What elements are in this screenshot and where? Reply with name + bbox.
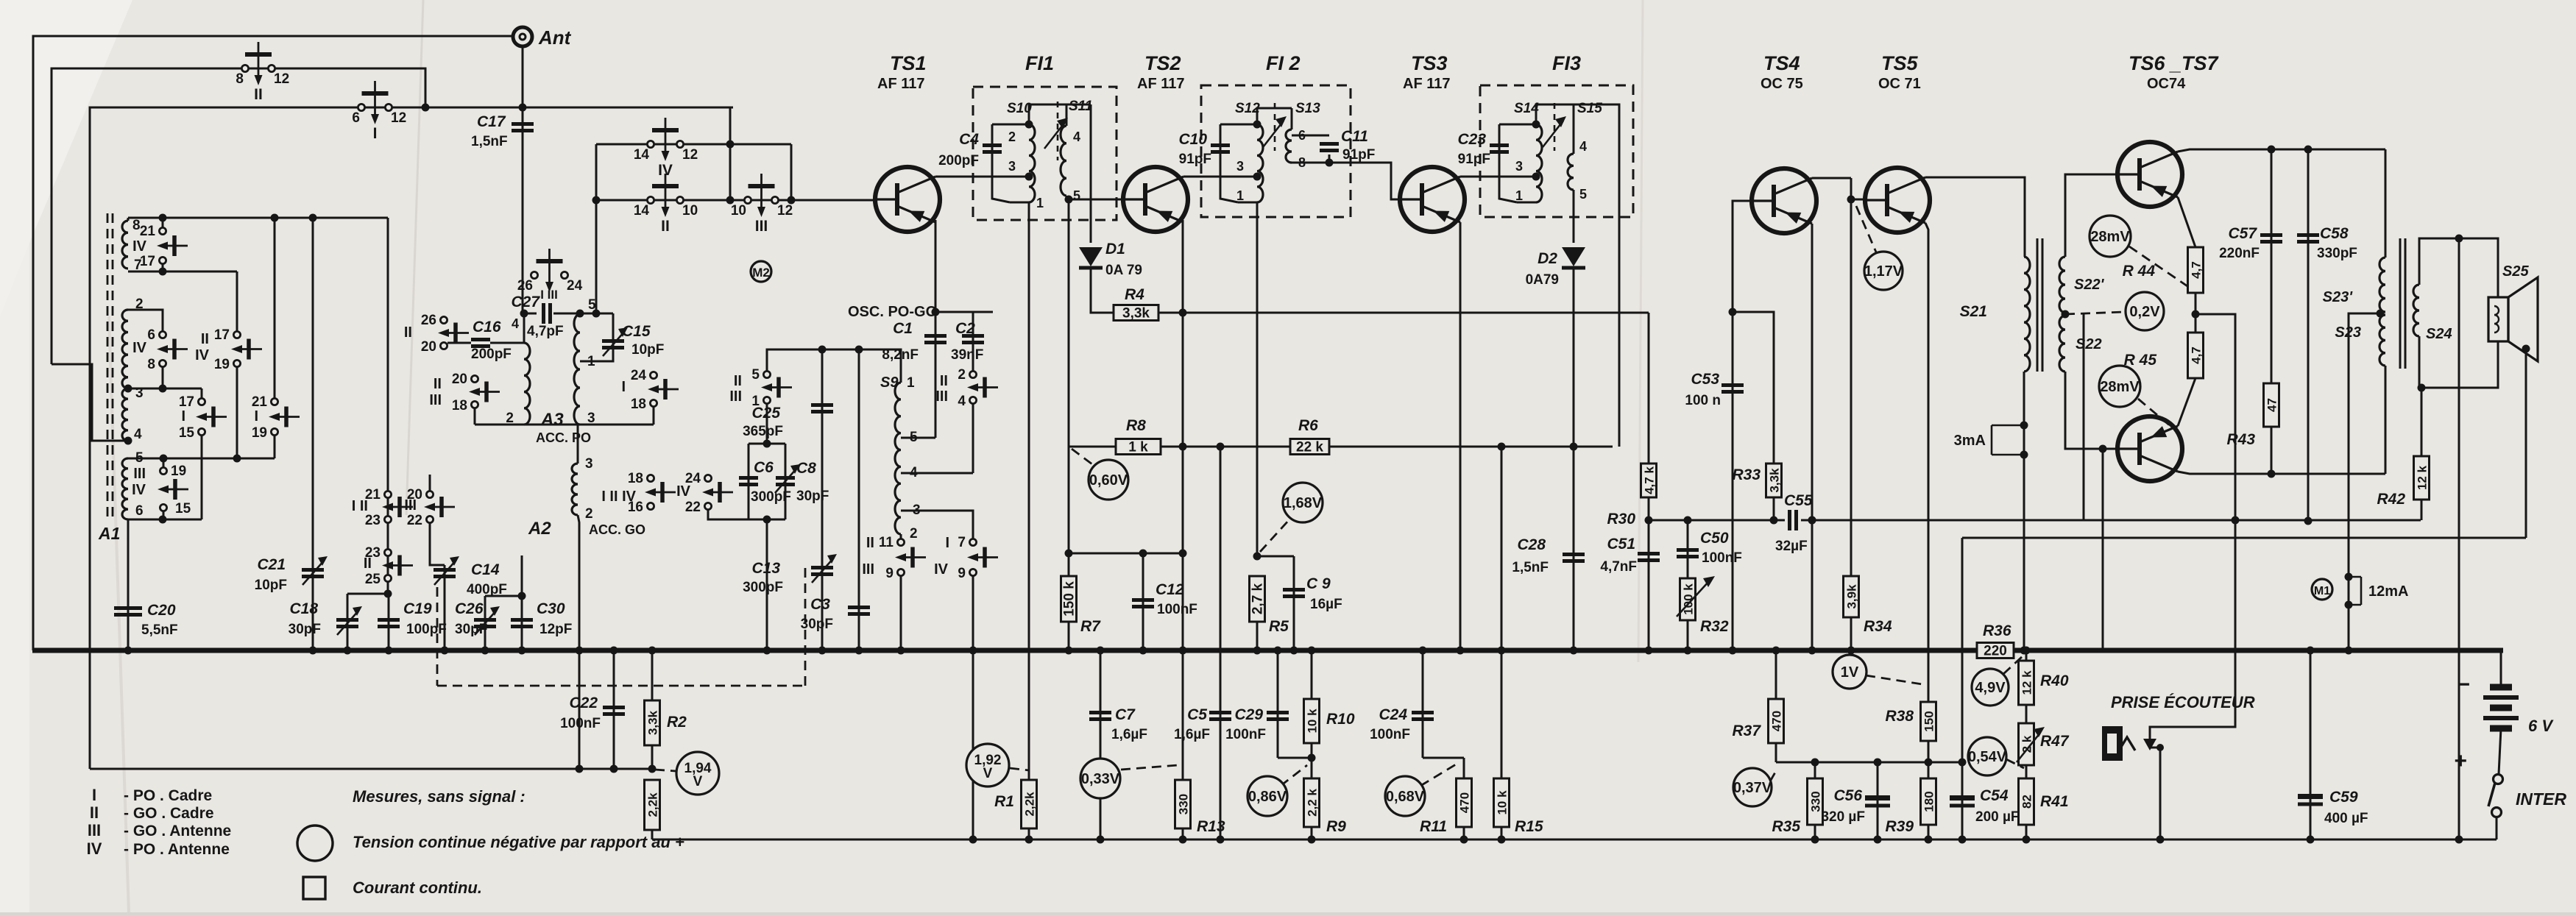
svg-text:1 k: 1 k: [1128, 440, 1148, 455]
wire rail 475: [767, 349, 901, 383]
wire S10 bottom: [1010, 202, 1029, 204]
junction II-III row x992: [726, 196, 735, 205]
capacitor C16: [471, 338, 490, 341]
svg-text:OC 75: OC 75: [1761, 76, 1803, 92]
wire mid rail 1036: [1776, 761, 1962, 764]
measure 1,17V: [1864, 252, 1903, 290]
svg-text:AF 117: AF 117: [877, 76, 924, 92]
junction C30 bus: [518, 647, 526, 655]
junction link752 left: [1065, 550, 1073, 558]
svg-text:4: 4: [134, 427, 142, 442]
svg-text:1,17V: 1,17V: [1864, 263, 1903, 280]
svg-text:TS1: TS1: [890, 52, 927, 74]
dashed measure 28mV top: [2129, 246, 2192, 289]
measure 0,37V: [1733, 768, 1772, 806]
switch II-IV contacts 17-19: [233, 331, 240, 338]
switch IVa contacts 21-17: [159, 227, 166, 234]
svg-text:1,68V: 1,68V: [1284, 495, 1323, 511]
coil A1 winding section 4: [122, 458, 128, 519]
svg-text:400 µF: 400 µF: [2324, 811, 2368, 826]
svg-text:100nF: 100nF: [560, 716, 601, 731]
transistor TS4: [1752, 168, 1816, 233]
coil S9 oscillator winding: [895, 383, 901, 534]
capacitor C59: [2298, 803, 2323, 806]
wire A3a top: [523, 313, 526, 343]
junction R5 C9: [1253, 553, 1262, 561]
wire C53 vertical: [1732, 312, 1734, 650]
svg-text:2: 2: [910, 526, 918, 542]
svg-text:C51: C51: [1607, 536, 1635, 553]
junction midrail R35: [1811, 759, 1819, 767]
capacitor C25: [811, 403, 833, 407]
resistor R11: [1457, 778, 1472, 827]
wire R44R45 junction right: [2195, 314, 2235, 520]
svg-text:28mV: 28mV: [2100, 379, 2140, 395]
junction R13 bottom: [1179, 836, 1187, 844]
svg-text:- PO . Cadre: - PO . Cadre: [124, 787, 212, 804]
capacitor C50: [1677, 548, 1699, 552]
measure 0,86V: [1248, 776, 1287, 816]
wire R39 top: [1928, 762, 1930, 778]
svg-text:2,2k: 2,2k: [1023, 792, 1037, 817]
svg-text:R 45: R 45: [2124, 352, 2157, 369]
wire mid line 1045: [90, 768, 655, 770]
wire C16 to switch IIe: [447, 342, 471, 344]
IF transformer FI2 dashed box: [1201, 85, 1351, 217]
svg-text:150: 150: [1922, 711, 1936, 731]
transistor TS3: [1400, 167, 1465, 232]
svg-text:8: 8: [236, 71, 244, 87]
svg-text:14: 14: [634, 203, 650, 219]
wire osc rail: [935, 311, 993, 313]
svg-text:- GO . Cadre: - GO . Cadre: [124, 805, 214, 822]
dashed tap to 0,2V: [2065, 312, 2124, 314]
junction S23 tap bus: [2345, 647, 2353, 655]
junction midrail C56: [1874, 759, 1882, 767]
resistor R2: [645, 700, 660, 745]
wire C9 link: [1257, 555, 1294, 558]
junction midrail C54: [1958, 759, 1967, 767]
svg-text:S22': S22': [2074, 277, 2105, 293]
svg-text:17: 17: [179, 394, 194, 410]
resistor R37: [1769, 699, 1784, 743]
junction R10 R9: [1308, 754, 1316, 762]
capacitor C55: [1788, 510, 1791, 530]
junction R2 bus: [648, 647, 657, 655]
wire TS5 collector to S21: [1925, 177, 2025, 257]
junction 12mA bottom: [2345, 601, 2353, 609]
ground bus bar left segment: [32, 648, 1977, 653]
headphone jack socket: [2102, 726, 2123, 761]
wire jack plug link: [2150, 747, 2160, 749]
svg-text:IV: IV: [132, 238, 147, 255]
svg-text:R38: R38: [1885, 708, 1914, 725]
resistor R5: [1250, 576, 1265, 622]
wire TS6 collector line: [2178, 149, 2385, 152]
resistor R47: [2019, 723, 2034, 765]
wire A1 bottom line: [128, 519, 202, 521]
junction pin5 line x322: [233, 455, 241, 463]
wire R39 bottom: [1928, 825, 1930, 839]
svg-text:C2: C2: [955, 320, 975, 337]
wire TS6 emitter to R44: [2178, 197, 2195, 247]
coil A3 primary winding: [524, 343, 530, 425]
junction R11 bottom: [1460, 836, 1468, 844]
speaker S25: [2488, 297, 2508, 341]
svg-text:I: I: [621, 379, 626, 395]
svg-text:C50: C50: [1700, 530, 1729, 547]
junction rows II x810: [592, 196, 601, 205]
svg-text:10 k: 10 k: [1496, 790, 1510, 815]
switch I-II contacts 21-23: [384, 491, 391, 497]
wire antenna vertical to C17 and osc rail: [523, 46, 537, 313]
junction R35 bottom line: [1811, 836, 1819, 844]
svg-text:28mV: 28mV: [2090, 229, 2130, 245]
coil S15 FI3 secondary: [1568, 154, 1574, 190]
capacitor C56: [1865, 804, 1890, 808]
svg-text:3,9k: 3,9k: [1845, 584, 1859, 609]
switch II-III j contacts 11-9: [897, 539, 904, 545]
svg-text:A3: A3: [540, 410, 564, 430]
capacitor C53: [1722, 383, 1744, 387]
junction S21 bus: [2020, 647, 2028, 655]
junction 3mA top: [2020, 422, 2028, 430]
wire C4 branch top: [992, 124, 1027, 126]
svg-text:0,60V: 0,60V: [1089, 472, 1128, 489]
wire C29 link to R10: [1278, 757, 1312, 759]
svg-text:S11: S11: [1069, 99, 1092, 114]
junction C57 top: [2268, 146, 2276, 154]
junction bottom line x221: [159, 516, 167, 524]
resistor R41: [2019, 778, 2034, 825]
svg-text:1,5nF: 1,5nF: [1512, 560, 1549, 575]
svg-text:III: III: [755, 218, 768, 235]
resistor R9: [1304, 778, 1320, 827]
svg-text:III: III: [729, 388, 742, 405]
svg-text:III: III: [429, 392, 442, 408]
wire pin7 line to switch IIIV top: [236, 271, 238, 331]
svg-text:300pF: 300pF: [751, 489, 791, 505]
svg-text:220: 220: [1984, 644, 2007, 659]
junction R34 bus: [1847, 647, 1855, 655]
junction R5 bus: [1253, 647, 1262, 655]
wire TS2 emitter down: [1182, 220, 1184, 650]
svg-text:C21: C21: [257, 556, 286, 573]
svg-text:3,3k: 3,3k: [1122, 306, 1150, 322]
wire C9 vertical: [1293, 556, 1295, 650]
svg-text:30pF: 30pF: [455, 622, 487, 637]
svg-text:39nF: 39nF: [951, 347, 983, 363]
resistor R8: [1116, 439, 1161, 455]
junction TS2 emitter bus: [1179, 647, 1187, 655]
svg-text:C5: C5: [1187, 706, 1207, 723]
svg-text:0,33V: 0,33V: [1081, 771, 1120, 787]
capacitor C19: [378, 618, 400, 622]
switch I top row contacts 6-12: [358, 104, 364, 110]
junction A3a top rail: [520, 310, 528, 318]
wire C2 switch to tap4: [972, 404, 974, 473]
svg-text:470: 470: [1770, 711, 1784, 731]
variable coupling arrow FI2: [1263, 121, 1284, 147]
svg-text:10 k: 10 k: [1306, 709, 1320, 734]
svg-text:3,3k: 3,3k: [1768, 468, 1782, 493]
resistor R7: [1061, 576, 1077, 622]
svg-text:18: 18: [631, 397, 646, 412]
wire S24 top to speaker: [2419, 238, 2498, 297]
dashed measure 0,86V: [1281, 765, 1307, 786]
resistor R6: [1290, 439, 1329, 455]
capacitor C8 variable: [776, 476, 795, 480]
wire switch I-IV k to bottom line: [972, 576, 974, 839]
transistor TS1: [875, 167, 940, 232]
IF transformer FI3 dashed box: [1480, 85, 1633, 217]
svg-text:23: 23: [365, 513, 381, 528]
junction C26 bus: [481, 647, 489, 655]
bottom return line: [652, 839, 2497, 841]
junction R41 bottom line: [2023, 836, 2031, 844]
svg-text:365pF: 365pF: [743, 424, 783, 439]
junction TS2 base AGC: [1065, 196, 1073, 204]
svg-text:C17: C17: [477, 113, 506, 130]
junction S24 speaker line: [2455, 235, 2463, 243]
transistor TS6: [2117, 142, 2182, 207]
wire R6 line right: [1329, 446, 1613, 448]
svg-text:12: 12: [391, 110, 406, 126]
wire C11 branch: [1292, 135, 1329, 137]
wire TS2 collector to FI2: [1183, 176, 1256, 178]
wire switch row II-III: [596, 199, 876, 202]
wire S12 top link: [1257, 108, 1292, 124]
wire switch row IV: [596, 143, 791, 146]
wire R5 to bus: [1256, 622, 1259, 650]
wire R40 top: [2025, 650, 2028, 661]
wire TS2 base down to AGC R8 junction: [1068, 199, 1070, 447]
wire pin5 to switch III-IV top: [163, 458, 165, 467]
switch IV row contacts 14-12: [647, 141, 654, 147]
wire R3 bottom: [651, 830, 654, 839]
wire C10 vertical: [1220, 124, 1238, 202]
wire C7 vertical: [1100, 650, 1102, 839]
svg-text:4,9V: 4,9V: [1975, 680, 2006, 696]
dashed measure 28mV bottom: [2138, 399, 2171, 427]
wire line A mid: [1801, 519, 2421, 522]
switch II-III l contacts 2-4: [969, 371, 976, 377]
junction 3mA bottom: [2020, 451, 2028, 459]
svg-text:4,7pF: 4,7pF: [527, 324, 564, 339]
junction switch x810 rail: [592, 310, 601, 318]
switch Ig contacts 24-18: [650, 372, 657, 378]
switch II mid row contacts 14-10: [647, 196, 654, 203]
svg-text:300pF: 300pF: [743, 580, 783, 595]
svg-text:TS5: TS5: [1881, 52, 1919, 74]
svg-text:12 k: 12 k: [2416, 465, 2430, 490]
svg-text:2,2 k: 2,2 k: [1306, 789, 1320, 817]
svg-text:R8: R8: [1126, 417, 1146, 434]
junction C19 bus: [385, 647, 393, 655]
junction R33 lineA: [1770, 516, 1778, 525]
resistor R40: [2019, 661, 2034, 705]
wire A1 top line: [128, 217, 388, 219]
coil S14 FI3 primary: [1536, 124, 1542, 202]
wire third border line row I: [90, 107, 733, 769]
junction rail x1167: [855, 346, 863, 354]
junction C14 bus: [441, 647, 449, 655]
capacitor C7: [1089, 711, 1111, 714]
switch IVb contacts 6-8: [159, 331, 166, 338]
wire C21 vertical: [312, 218, 314, 650]
wire S9 pin2 chain to bus: [900, 576, 902, 650]
junction C11 pin8 wire: [1326, 159, 1334, 167]
wire tap5 to C1: [901, 437, 935, 439]
ferrite rod A1 dashed right: [112, 213, 114, 519]
svg-text:19: 19: [252, 425, 267, 441]
junction C6 top: [763, 440, 771, 448]
wire vertical linking rows at x810: [595, 144, 598, 313]
svg-text:0,54V: 0,54V: [1968, 749, 2007, 765]
svg-text:OC 71: OC 71: [1878, 76, 1921, 92]
wire C16 branch: [490, 342, 524, 344]
wire S23 bottom to collector line: [2385, 366, 2387, 474]
wire R38 to midrail: [1928, 741, 1930, 762]
svg-text:17: 17: [214, 327, 230, 343]
wire TS7 collector line: [2178, 472, 2385, 474]
junction S23 tap: [2377, 310, 2385, 318]
dashed measure 0,68V: [1420, 762, 1459, 786]
svg-text:II: II: [404, 324, 412, 341]
svg-text:S22: S22: [2076, 336, 2102, 352]
svg-text:100pF: 100pF: [406, 622, 447, 637]
svg-text:470: 470: [1458, 792, 1472, 813]
svg-text:C12: C12: [1156, 581, 1184, 598]
junction midrail R39: [1925, 759, 1933, 767]
junction C58 lineA: [2304, 517, 2313, 525]
svg-text:C28: C28: [1517, 536, 1546, 553]
junction C58 top: [2304, 146, 2313, 154]
svg-text:R5: R5: [1269, 618, 1289, 635]
svg-text:1V: 1V: [1841, 664, 1859, 681]
wire tap3 to switch I-IV: [901, 511, 973, 539]
junction C28 bus: [1570, 647, 1578, 655]
svg-text:R7: R7: [1080, 618, 1101, 635]
capacitor C14 variable: [434, 568, 456, 572]
junction R10 bus: [1308, 647, 1316, 655]
svg-text:C22: C22: [569, 695, 598, 711]
coil S11 FI1 secondary: [1061, 126, 1066, 196]
svg-text:S21: S21: [1960, 303, 1987, 320]
switch III b contacts 20-22: [426, 491, 433, 497]
svg-text:C10: C10: [1178, 131, 1207, 148]
svg-text:PRISE ÉCOUTEUR: PRISE ÉCOUTEUR: [2111, 693, 2255, 711]
capacitor C26 variable: [474, 618, 496, 622]
svg-text:- PO . Antenne: - PO . Antenne: [124, 841, 230, 858]
svg-text:R41: R41: [2040, 793, 2069, 810]
wire R15 vertical: [1501, 447, 1503, 839]
capacitor C20: [114, 606, 142, 610]
transistor TS7: [2117, 416, 2182, 481]
svg-text:C15: C15: [622, 323, 651, 340]
svg-text:47: 47: [2265, 398, 2279, 412]
svg-text:IV: IV: [132, 482, 146, 498]
ferrite rod A1 dashed left: [107, 213, 109, 519]
junction R7 bus: [1065, 647, 1073, 655]
capacitor C30: [511, 618, 533, 622]
wire jack frame to bottom line: [2159, 748, 2162, 839]
svg-text:9: 9: [958, 566, 966, 581]
wire sw IIi bottom to C6 top: [766, 404, 768, 444]
measure 1,94V: [676, 752, 719, 795]
wire TS6 base: [2065, 174, 2117, 257]
switch IVh contacts 24-22: [704, 475, 711, 481]
resistor R36: [1977, 643, 2014, 658]
resistor R3: [645, 780, 660, 830]
svg-text:1: 1: [907, 375, 915, 391]
svg-text:320 µF: 320 µF: [1821, 809, 1865, 825]
switch II top row contacts 8-12: [241, 65, 248, 71]
wire R47 R41 link: [2025, 765, 2028, 778]
svg-text:1: 1: [1036, 196, 1044, 210]
wire TS3 emitter down: [1459, 222, 1462, 650]
svg-text:22: 22: [685, 500, 701, 515]
svg-text:C18: C18: [289, 600, 318, 617]
svg-text:I: I: [945, 535, 949, 551]
wire C50 R32 vertical: [1687, 520, 1689, 650]
capacitor C9: [1283, 588, 1305, 592]
svg-text:1: 1: [1236, 188, 1244, 203]
capacitor C27: [542, 303, 545, 324]
svg-text:21: 21: [252, 394, 268, 410]
capacitor C58: [2297, 233, 2319, 237]
svg-text:S23': S23': [2323, 289, 2354, 305]
svg-text:III: III: [935, 388, 948, 405]
svg-text:4,7: 4,7: [2190, 261, 2204, 279]
svg-text:- GO . Antenne: - GO . Antenne: [124, 823, 231, 839]
measure 0,54V: [1968, 737, 2006, 775]
svg-text:V: V: [693, 774, 703, 789]
svg-text:5: 5: [751, 367, 760, 383]
svg-text:R30: R30: [1607, 511, 1635, 528]
dashed gang line C14: [436, 587, 439, 686]
svg-text:25: 25: [365, 572, 381, 587]
wire R13 vertical: [1182, 650, 1184, 839]
coil A1 winding section 1: [122, 221, 128, 269]
resistor R1: [1022, 780, 1037, 828]
wire C1 vertical: [935, 312, 937, 438]
wire x1167 vertical: [858, 349, 860, 650]
svg-text:6: 6: [135, 503, 144, 519]
wire row IV right drop: [790, 144, 793, 200]
svg-text:TS3: TS3: [1411, 52, 1448, 74]
resistor R35: [1808, 778, 1823, 825]
svg-text:4: 4: [958, 394, 966, 409]
transformer core S23-S24: [2399, 238, 2402, 369]
svg-text:R35: R35: [1772, 818, 1800, 835]
wire S15 bottom to D2: [1573, 190, 1575, 243]
svg-text:−: −: [2457, 672, 2470, 697]
svg-text:FI 2: FI 2: [1266, 52, 1301, 74]
wire A2 top: [577, 425, 579, 464]
wire C6-C8 frame right: [785, 444, 787, 519]
wire IVb bottom to pin3 line: [162, 367, 164, 388]
junction D2 R6 line: [1570, 443, 1578, 451]
svg-text:17: 17: [140, 254, 155, 269]
svg-text:R34: R34: [1864, 618, 1892, 635]
junction C5 top on R6 line: [1217, 443, 1225, 451]
wire C2 vertical: [972, 312, 974, 372]
svg-text:C58: C58: [2320, 225, 2349, 242]
dashed measure 0,60V: [1072, 449, 1095, 466]
svg-text:8,2nF: 8,2nF: [882, 347, 919, 363]
svg-text:I: I: [254, 408, 258, 425]
